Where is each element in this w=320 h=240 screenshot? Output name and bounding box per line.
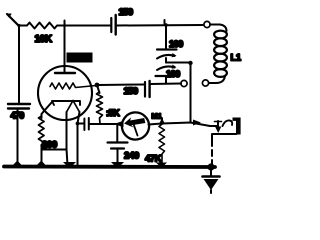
jack J1 sleeve bar xyxy=(236,118,241,135)
junction blob heater legs xyxy=(63,162,76,169)
junction flare at R2 line xyxy=(37,161,46,166)
svg-text:10K: 10K xyxy=(35,34,53,45)
resistor R4 47K xyxy=(159,124,165,164)
terminal: grid-side open circle xyxy=(181,80,187,86)
svg-text:100: 100 xyxy=(166,69,180,79)
wire: C5 to coil terminal xyxy=(151,83,181,86)
wire: B+ diagonal lead top-left xyxy=(7,14,19,26)
svg-text:150: 150 xyxy=(124,86,138,97)
capacitor C1 150 (plate coupling) xyxy=(110,18,112,32)
jack J1 tip contact xyxy=(217,121,219,126)
wire: grid node down xyxy=(97,85,100,93)
wire: top bus to C1 xyxy=(60,25,110,27)
capacitor C2 100 (variable, upper) xyxy=(157,48,177,50)
junction arrow at meter left xyxy=(114,121,124,128)
inductor L1 xyxy=(214,31,227,39)
heater of V1 xyxy=(67,101,80,113)
grid of V1 (zigzag) xyxy=(50,83,96,89)
ground bus xyxy=(4,165,215,169)
svg-text:L1: L1 xyxy=(231,53,242,63)
wire: R2 bottom to ground bus xyxy=(41,148,43,166)
resistor R2 200 (cathode) xyxy=(39,116,45,148)
wire: coil bottom lead xyxy=(209,76,225,83)
node: rotor tap wire xyxy=(166,62,190,64)
plate of V1 xyxy=(55,72,75,74)
capacitor C5 150 (grid) xyxy=(144,82,146,97)
resistor R1 10K xyxy=(19,23,60,29)
node: 47K junction tick xyxy=(161,119,163,125)
capacitor C6 (cathode line) xyxy=(83,119,85,131)
junction blob R4 xyxy=(156,163,167,169)
meter M1 xyxy=(122,112,149,139)
wire: C1 to coil top xyxy=(117,24,203,27)
wire: rotor tap down to meter line xyxy=(190,63,192,123)
wire: to meter xyxy=(90,123,123,125)
capacitor C4 470 xyxy=(8,103,30,105)
ground symbol xyxy=(210,167,212,176)
svg-text:6C4: 6C4 xyxy=(69,54,84,63)
svg-text:240: 240 xyxy=(124,151,139,162)
svg-text:470: 470 xyxy=(11,111,25,121)
junction arrow right of M1 xyxy=(193,120,201,126)
node: tuning cap tap junction xyxy=(164,23,167,26)
svg-text:100: 100 xyxy=(169,39,183,49)
wire: tuning cap top lead xyxy=(165,25,167,49)
node A: top-left junction xyxy=(17,24,20,27)
capacitor C3 100 (variable, lower) xyxy=(157,66,175,70)
svg-text:M1: M1 xyxy=(152,112,162,121)
wire: meter right to jack xyxy=(149,123,219,127)
capacitor C7 240 (meter shunt) xyxy=(116,124,118,142)
cathode of V1 xyxy=(52,101,80,105)
wire: circle to coil xyxy=(210,25,227,32)
node: ground junction dot xyxy=(207,163,214,170)
wire: link R2 to heater leg xyxy=(42,149,67,151)
svg-text:150: 150 xyxy=(119,7,133,18)
terminal: coil bottom open circle xyxy=(202,80,208,86)
jack J1 spring xyxy=(223,120,233,126)
node: grid junction dot xyxy=(95,83,100,88)
svg-text::5K: :5K xyxy=(106,108,120,118)
wire: cathode lead xyxy=(42,102,53,118)
resistor R3 5K (grid leak) xyxy=(97,92,103,124)
wire: grid line to C5 xyxy=(99,84,144,87)
wire: jack sleeve to ground xyxy=(212,134,237,146)
wire: left B+ branch down xyxy=(18,26,20,105)
label 6C4 xyxy=(67,53,93,63)
junction blob C7 xyxy=(111,162,124,169)
wire: plate lead xyxy=(64,21,66,74)
terminal: coil top open circle xyxy=(204,21,210,27)
wire: cathode bypass line xyxy=(78,123,85,125)
tube V1 envelope xyxy=(38,66,92,120)
junction flare at 470 line xyxy=(13,161,22,166)
wire: heater left leg xyxy=(67,112,68,165)
wire: heater right leg xyxy=(78,112,80,165)
